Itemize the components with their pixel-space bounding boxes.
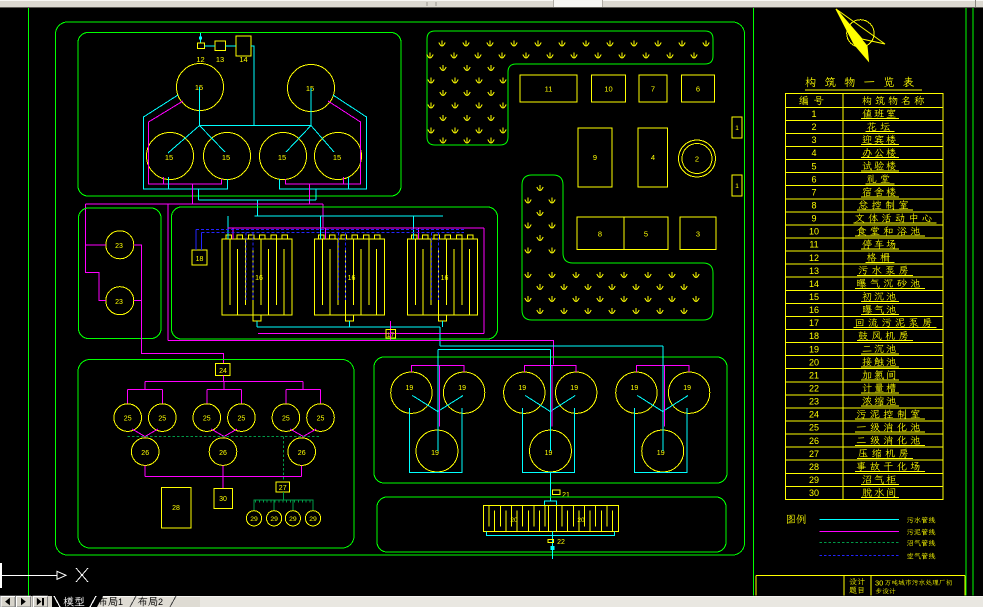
svg-text:2: 2: [811, 122, 816, 132]
svg-text:16: 16: [441, 275, 449, 282]
biogas holder 29 (1): [246, 511, 261, 526]
aeration tank 16 (group 3): [408, 239, 478, 315]
svg-text:10: 10: [809, 227, 819, 237]
svg-text:3: 3: [696, 230, 700, 239]
svg-text:3: 3: [811, 135, 816, 145]
svg-text:7: 7: [811, 187, 816, 197]
svg-text:26: 26: [141, 450, 149, 457]
wire: aeration effluent collector (cyan): [257, 326, 440, 328]
thickener area boundary: [79, 208, 162, 339]
svg-text:6: 6: [811, 174, 816, 184]
aeration tank 16 (group 2): [315, 239, 385, 315]
wire: interzone magenta header: [86, 203, 323, 205]
svg-text:28: 28: [809, 462, 819, 472]
svg-text:5: 5: [811, 161, 816, 171]
chlorination room 21: [553, 490, 561, 495]
secondary clarifier 19 (group 1 right): [443, 372, 484, 413]
svg-text:19: 19: [657, 450, 665, 457]
influent arrow: [200, 33, 202, 43]
main control room 8: [577, 217, 624, 250]
svg-text:27: 27: [279, 485, 287, 492]
secondary clarifier 19 (group 3 bottom): [642, 430, 684, 472]
wire: clarifier feed header A (cyan): [440, 345, 663, 347]
secondary clarifier 19 (group 2 left): [504, 372, 545, 413]
wire: contact tank effluent collector (cyan): [487, 532, 615, 536]
office building 4: [638, 128, 668, 187]
svg-text:16: 16: [348, 275, 356, 282]
svg-text:30: 30: [809, 488, 819, 498]
svg-text:19: 19: [518, 385, 526, 392]
svg-text:20: 20: [577, 517, 585, 524]
primary digester 25 (5): [272, 404, 300, 432]
north arrow: [847, 20, 874, 47]
svg-text:15: 15: [306, 84, 314, 93]
svg-text:25: 25: [317, 416, 325, 423]
green belt (top, with trees): [427, 31, 713, 145]
svg-text:22: 22: [809, 384, 819, 394]
svg-text:21: 21: [562, 492, 570, 499]
svg-text:17: 17: [387, 332, 395, 339]
activity center 9: [578, 128, 612, 187]
svg-text:26: 26: [219, 450, 227, 457]
wire: clarifier group 1 effluent loop (cyan): [410, 408, 463, 473]
bottom tab bar: [0, 596, 983, 607]
road line right of site: [753, 8, 755, 596]
legend: sludge line: [820, 531, 899, 533]
svg-text:24: 24: [809, 410, 819, 420]
title block: [756, 575, 965, 577]
green belt (middle L, with trees): [522, 175, 713, 320]
flower bed 2: [679, 140, 716, 177]
svg-text:25: 25: [158, 416, 166, 423]
wire: clarifier group 2 influent Y (cyan): [525, 396, 550, 412]
wire: sludge loop right pair (magenta): [286, 101, 361, 184]
wire: clarifier group 2 sludge (magenta): [524, 366, 576, 372]
wire: digester interconnect (magenta): [132, 429, 158, 437]
svg-text:18: 18: [196, 256, 204, 263]
blower house 18: [192, 250, 207, 265]
site boundary fence: [56, 22, 745, 555]
svg-text:25: 25: [809, 423, 819, 433]
primary sedimentation tank 15 (row 3): [260, 133, 307, 180]
svg-text:8: 8: [811, 201, 816, 211]
svg-text:14: 14: [809, 279, 819, 289]
biogas holder 29 (2): [267, 511, 282, 526]
svg-text:15: 15: [222, 153, 230, 162]
svg-text:25: 25: [238, 416, 246, 423]
svg-text:1: 1: [811, 109, 816, 119]
wire: clarifier group 3 sludge (magenta): [636, 366, 689, 372]
svg-text:29: 29: [309, 516, 317, 523]
flume 22: [548, 540, 554, 543]
svg-text:20: 20: [809, 357, 819, 367]
wire: return sludge header (magenta): [228, 227, 484, 229]
UCS icon: [0, 574, 57, 576]
primary sedimentation tank 15 (row 1): [147, 133, 194, 180]
svg-text:13: 13: [216, 55, 224, 64]
air main from blower (blue dashed): [195, 230, 197, 251]
primary sedimentation tank 15 (top-left): [177, 64, 224, 111]
sewage pump house 13: [215, 41, 226, 51]
secondary clarifier 19 (group 3 left): [616, 372, 657, 413]
reception building 3: [680, 217, 716, 250]
wire: interzone cyan header: [199, 199, 316, 201]
svg-text:16: 16: [255, 275, 263, 282]
canteen and bath 10: [592, 75, 626, 102]
svg-text:19: 19: [545, 450, 553, 457]
sludge control room 24: [216, 364, 231, 376]
thickener 23 (top): [106, 231, 134, 259]
svg-text:12: 12: [196, 55, 204, 64]
secondary digester 26 (1): [131, 438, 159, 466]
svg-text:1: 1: [118, 597, 123, 607]
svg-text:22: 22: [557, 539, 565, 546]
wire: excess sludge main (magenta): [168, 340, 554, 364]
secondary clarifier area boundary: [374, 357, 727, 483]
bar screen 12: [198, 43, 205, 49]
wire: clarifier group 1 sludge (magenta): [411, 366, 464, 372]
compressor house 27: [276, 482, 289, 492]
biogas holder 29 (4): [305, 511, 320, 526]
pretreatment area boundary: [78, 33, 401, 197]
layout2 tab: [138, 597, 158, 607]
svg-text:16: 16: [809, 305, 819, 315]
secondary clarifier 19 (group 2 right): [556, 372, 597, 413]
legend title: [787, 514, 806, 524]
wire: effluent loop left pair (cyan): [144, 95, 228, 189]
aerated grit chamber 14: [236, 36, 251, 56]
svg-text:13: 13: [809, 266, 819, 276]
gas holder manifold ticks: [255, 500, 257, 503]
wire: digester feed manifold (magenta): [222, 376, 224, 382]
return sludge pump house 17: [386, 330, 396, 338]
svg-text:1: 1: [735, 125, 739, 132]
legend: biogas line: [820, 542, 899, 544]
primary digester 25 (6): [307, 404, 335, 432]
svg-text:5: 5: [644, 230, 648, 239]
svg-text:27: 27: [809, 449, 819, 459]
svg-text:15: 15: [809, 292, 819, 302]
contact tank area boundary: [377, 497, 726, 552]
svg-text:11: 11: [809, 240, 818, 250]
structures table: [786, 94, 944, 500]
svg-text:10: 10: [604, 85, 612, 94]
wire: final effluent down to contact tank: [549, 472, 551, 501]
wire: contact tank inlet split: [545, 501, 557, 505]
svg-text:9: 9: [593, 153, 597, 162]
svg-text:2: 2: [695, 155, 699, 164]
svg-text:15: 15: [333, 153, 341, 162]
accident drying bed 28: [162, 488, 192, 529]
wire: distribution header to tanks: [200, 125, 312, 127]
primary digester 25 (2): [149, 404, 177, 432]
secondary clarifier 19 (group 2 bottom): [530, 430, 572, 472]
primary digester 25 (3): [193, 404, 221, 432]
wire: grit chamber feed to distribution: [251, 46, 254, 126]
svg-text:23: 23: [115, 243, 123, 250]
top toolbar strip: [0, 0, 983, 8]
svg-text:21: 21: [809, 370, 819, 380]
guard room 1 (north): [732, 117, 742, 138]
wire: clarifier feed header B (cyan): [438, 349, 551, 351]
aeration tank 16 (group 1): [222, 239, 292, 315]
wire: clarifier group 3 effluent loop (cyan): [635, 408, 688, 473]
wire: thickener sludge piping: [86, 244, 106, 246]
svg-text:15: 15: [165, 153, 173, 162]
svg-text:24: 24: [219, 368, 227, 375]
svg-text:25: 25: [124, 416, 132, 423]
parking lot 11: [520, 75, 577, 102]
guard room 1 (south): [732, 175, 742, 196]
digestion area boundary: [78, 360, 354, 549]
secondary digester 26 (3): [288, 438, 316, 466]
primary sedimentation tank 15 (top-right): [288, 65, 335, 112]
svg-text:23: 23: [115, 299, 123, 306]
contact tank 20: [484, 505, 619, 531]
svg-text:9: 9: [811, 214, 816, 224]
tank outlet stubs: [163, 177, 165, 184]
wire: clarifier group 3 influent Y (cyan): [637, 396, 662, 412]
wire: screen to pump to grit: [205, 45, 216, 47]
svg-text:4: 4: [651, 153, 655, 162]
svg-text:29: 29: [809, 475, 819, 485]
svg-text:19: 19: [431, 450, 439, 457]
svg-text:26: 26: [809, 436, 819, 446]
svg-text:1: 1: [735, 183, 739, 190]
svg-text:25: 25: [282, 416, 290, 423]
svg-text:29: 29: [289, 516, 297, 523]
svg-text:4: 4: [811, 148, 816, 158]
svg-text:14: 14: [239, 55, 247, 64]
primary digester 25 (4): [228, 404, 256, 432]
svg-text:28: 28: [172, 505, 180, 512]
biogas main (green dashed): [128, 435, 321, 437]
wire: clarifier group 1 influent Y (cyan): [412, 396, 437, 412]
svg-text:18: 18: [809, 331, 819, 341]
svg-text:26: 26: [298, 450, 306, 457]
svg-text:29: 29: [250, 516, 258, 523]
svg-text:20: 20: [510, 517, 518, 524]
svg-text:23: 23: [809, 397, 819, 407]
svg-text:30: 30: [219, 496, 227, 503]
aeration area boundary: [172, 207, 498, 339]
wire: sludge loop left pair (magenta): [149, 101, 222, 184]
structures list table title: [805, 77, 914, 88]
svg-text:19: 19: [406, 385, 414, 392]
svg-text:19: 19: [809, 344, 819, 354]
wire: aeration influent header (cyan): [255, 215, 444, 217]
svg-text:30: 30: [875, 579, 883, 588]
svg-text:7: 7: [651, 85, 655, 94]
wire: sludge main to digesters: [167, 204, 169, 340]
svg-text:19: 19: [631, 385, 639, 392]
secondary clarifier 19 (group 1 left): [391, 372, 432, 413]
thickener 23 (bottom): [106, 287, 134, 315]
auditorium 6: [682, 75, 715, 102]
dewatering room 30: [214, 489, 233, 509]
secondary digester 26 (2): [209, 438, 237, 466]
svg-text:19: 19: [458, 385, 466, 392]
secondary clarifier 19 (group 3 right): [668, 372, 709, 413]
legend: sewage line: [820, 519, 899, 521]
dormitory 7: [639, 75, 667, 102]
legend: air line: [820, 555, 899, 557]
svg-text:17: 17: [809, 318, 819, 328]
wire: biogas to holders (green dashed): [282, 492, 284, 500]
wire: digested sludge header (magenta): [144, 465, 146, 476]
secondary clarifier 19 (group 1 bottom): [416, 430, 458, 472]
svg-text:12: 12: [809, 253, 819, 263]
svg-text:25: 25: [203, 416, 211, 423]
svg-text:2: 2: [158, 597, 163, 607]
biogas holder 29 (3): [285, 511, 300, 526]
svg-text:6: 6: [696, 85, 700, 94]
svg-text:19: 19: [570, 385, 578, 392]
trees: [427, 41, 709, 315]
wire: outfall: [551, 546, 555, 550]
wire: zone A downcomers: [192, 184, 194, 204]
wire: clarifier group 2 effluent loop (cyan): [522, 408, 574, 473]
primary sedimentation tank 15 (row 2): [204, 133, 251, 180]
laboratory building 5: [624, 217, 668, 250]
svg-text:15: 15: [278, 153, 286, 162]
svg-text:8: 8: [598, 230, 602, 239]
svg-text:19: 19: [683, 385, 691, 392]
primary digester 25 (1): [114, 404, 142, 432]
primary sedimentation tank 15 (row 4): [315, 133, 362, 180]
svg-text:29: 29: [270, 516, 278, 523]
svg-text:11: 11: [545, 85, 553, 94]
sheet border line left: [28, 8, 30, 596]
sheet border lines far right: [965, 8, 967, 596]
wire: effluent loop right pair (cyan): [280, 95, 367, 189]
wire: sludge collector to pump house (magenta): [258, 333, 484, 335]
model tab (active): [54, 596, 60, 607]
layout1 tab: [98, 597, 118, 607]
